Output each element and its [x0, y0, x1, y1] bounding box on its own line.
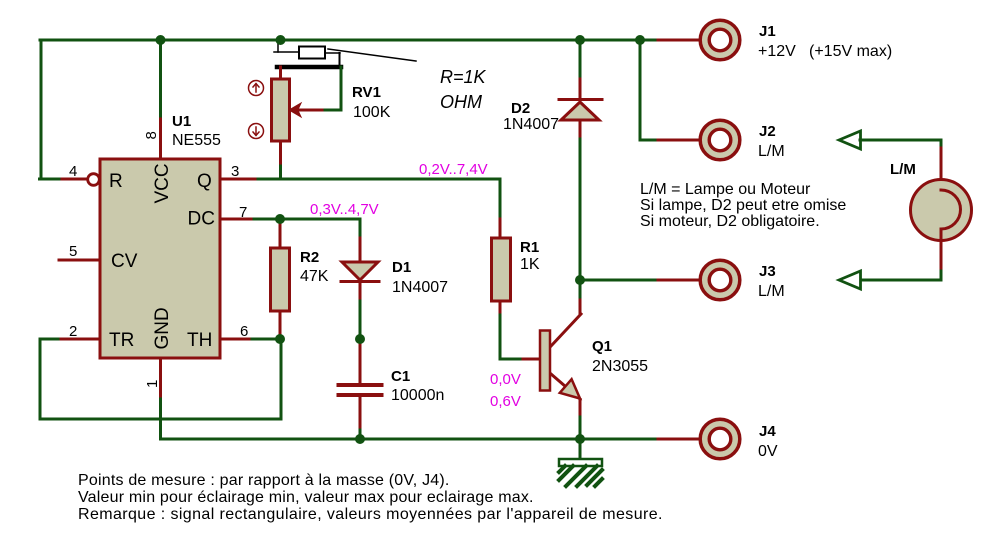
capacitor C1 stub bottom	[359, 397, 362, 430]
pin 4 stub	[62, 178, 88, 181]
wire lamp top	[860, 140, 941, 148]
svg-text:Q: Q	[197, 171, 212, 192]
diode D1 stub bottom	[359, 281, 362, 301]
junction node pin8/rail	[156, 35, 166, 45]
svg-text:R1: R1	[520, 239, 539, 256]
connector J1	[700, 20, 740, 60]
connector J3	[700, 260, 740, 300]
connector J2	[700, 120, 740, 160]
svg-text:OHM: OHM	[440, 92, 482, 112]
Q1 base stub	[523, 358, 540, 361]
lamp arrow bottom	[839, 271, 861, 289]
annotation pointer line	[328, 49, 416, 61]
potentiometer RV1 body	[272, 79, 290, 141]
svg-text:2: 2	[69, 323, 77, 340]
svg-text:R=1K: R=1K	[440, 67, 487, 87]
svg-text:R2: R2	[300, 249, 319, 266]
RV1 wiper arrowhead	[290, 104, 301, 117]
pin 1 stub	[159, 358, 162, 399]
ic U1 NE555 body	[100, 159, 220, 358]
svg-text:L/M: L/M	[890, 161, 916, 178]
RV1 down adjust circle	[249, 124, 264, 139]
resistor R2 stub bottom	[279, 311, 282, 339]
svg-text:1K: 1K	[520, 256, 540, 273]
resistor R1 body	[492, 238, 511, 301]
RV1 up adjust circle	[249, 81, 264, 96]
svg-text:Remarque : signal rectangulair: Remarque : signal rectangulaire, valeurs…	[78, 506, 663, 523]
wire J1 stub green	[640, 39, 658, 42]
svg-text:8: 8	[143, 131, 160, 139]
transistor Q1 emitter stub	[579, 400, 582, 417]
svg-text:C1: C1	[391, 368, 410, 385]
pin 6 stub	[220, 338, 252, 341]
svg-text:2N3055: 2N3055	[592, 358, 648, 375]
diode D2 cathode bar	[559, 98, 602, 101]
resistor R2 body	[271, 248, 290, 311]
wire reset pin4 horizontal	[40, 178, 63, 181]
lamp inner arc	[941, 190, 961, 229]
junction node emitter ground	[575, 434, 585, 444]
wire J4 stub	[658, 438, 700, 441]
resistor R1 stub top	[499, 219, 502, 239]
lamp L/M circle	[911, 180, 972, 241]
potentiometer RV1 black annotation tick	[277, 43, 279, 52]
diode D2 stub top	[579, 79, 582, 99]
svg-text:J2: J2	[759, 123, 776, 140]
svg-text:10000n: 10000n	[391, 387, 444, 404]
svg-text:0,0V: 0,0V	[490, 371, 521, 388]
svg-text:U1: U1	[172, 113, 191, 130]
potentiometer RV1 stub top	[279, 67, 282, 79]
wire D1 to node	[359, 301, 362, 339]
svg-text:6: 6	[240, 323, 248, 340]
wire ground symbol drop	[579, 439, 582, 459]
svg-text:J4: J4	[759, 423, 776, 440]
svg-text:TH: TH	[187, 330, 212, 351]
potentiometer RV1 stub bottom	[279, 141, 282, 166]
junction node C1 ground	[355, 434, 365, 444]
junction node J3	[575, 275, 585, 285]
wire pin2 green	[40, 338, 61, 341]
wire pin8 vertical green	[159, 40, 162, 119]
wire R1 to Q1 base	[500, 315, 523, 359]
svg-text:TR: TR	[109, 330, 134, 351]
svg-text:VCC: VCC	[152, 163, 173, 203]
svg-text:J1: J1	[759, 23, 776, 40]
svg-text:Points de mesure : par rapport: Points de mesure : par rapport à la mass…	[78, 472, 450, 489]
svg-text:100K: 100K	[353, 104, 391, 121]
pin 7 stub	[220, 218, 254, 221]
svg-text:L/M: L/M	[758, 283, 785, 300]
junction node D2/rail	[575, 35, 585, 45]
svg-text:0,6V: 0,6V	[490, 393, 521, 410]
transistor Q1 emitter diagonal	[551, 374, 580, 399]
junction node RV1/rail	[276, 35, 286, 45]
wire J3 node down	[579, 280, 582, 300]
capacitor C1 plates	[339, 383, 382, 387]
wire RV1 bottom to pin3 net	[279, 166, 282, 179]
svg-text:47K: 47K	[300, 268, 329, 285]
connector J4	[700, 419, 740, 459]
svg-text:1N4007: 1N4007	[392, 279, 448, 296]
diode D1 cathode bar	[341, 280, 379, 283]
wire RV1 wiper vertical	[340, 67, 343, 110]
lamp wire red top	[940, 148, 943, 190]
transistor Q1 base bar	[540, 331, 550, 391]
wire J3 horizontal	[580, 279, 658, 282]
svg-text:Si moteur, D2 obligatoire.: Si moteur, D2 obligatoire.	[640, 213, 820, 230]
capacitor C1 stub top	[359, 339, 362, 383]
svg-text:0,2V..7,4V: 0,2V..7,4V	[419, 161, 488, 178]
svg-text:5: 5	[69, 243, 77, 260]
svg-text:NE555: NE555	[172, 132, 221, 149]
wire J2 stub red	[658, 139, 700, 142]
wire pin7 to D1	[254, 219, 360, 238]
annotation resistor box	[299, 47, 325, 59]
diode D1 triangle	[342, 262, 378, 280]
wire C1 to ground rail	[359, 430, 362, 439]
wire pin3 to R1	[258, 179, 500, 219]
junction node pin6	[275, 334, 285, 344]
wire D2 to J3 node	[579, 139, 582, 280]
pin 2 stub	[61, 338, 100, 341]
junction node pin7	[275, 214, 285, 224]
wire lamp bottom	[860, 271, 941, 280]
annotation vertical jog	[339, 53, 341, 66]
svg-text:CV: CV	[111, 251, 138, 272]
wire J2 branch	[640, 40, 658, 140]
annotation line right	[325, 52, 340, 54]
svg-text:+12V: +12V	[758, 43, 796, 60]
svg-text:R: R	[109, 171, 123, 192]
svg-text:L/M = Lampe ou Moteur: L/M = Lampe ou Moteur	[640, 181, 811, 198]
svg-text:DC: DC	[188, 209, 215, 230]
wire ground rail	[161, 438, 659, 441]
pin 5 stub	[59, 259, 100, 262]
wire TR loop	[40, 339, 281, 419]
wire left vertical VCC to reset	[40, 40, 43, 179]
svg-text:4: 4	[69, 163, 77, 180]
svg-text:RV1: RV1	[352, 84, 381, 101]
wire RV1 wiper horizontal green	[322, 109, 341, 112]
svg-text:D1: D1	[392, 259, 411, 276]
diode D1 stub top	[359, 238, 362, 262]
wire pin1 to ground rail	[159, 399, 162, 439]
svg-text:Q1: Q1	[592, 338, 612, 355]
svg-text:D2: D2	[511, 100, 530, 117]
pin 8 stub	[159, 119, 162, 159]
junction node J2 branch	[635, 35, 645, 45]
lamp arrow top	[839, 131, 861, 149]
resistor R2 stub top	[279, 219, 282, 249]
pin 3 stub	[220, 178, 258, 181]
svg-text:J3: J3	[759, 263, 776, 280]
resistor R1 stub bottom	[499, 301, 502, 315]
ground symbol	[559, 459, 602, 486]
svg-text:L/M: L/M	[758, 143, 785, 160]
svg-text:(+15V max): (+15V max)	[809, 43, 892, 60]
svg-text:7: 7	[239, 204, 247, 221]
wire emitter to ground rail	[579, 417, 582, 439]
RV1 wiper red wire	[295, 109, 322, 112]
svg-text:3: 3	[231, 163, 239, 180]
svg-text:Si lampe, D2 peut etre omise: Si lampe, D2 peut etre omise	[640, 197, 846, 214]
wire pin6 to node	[252, 338, 281, 341]
svg-text:Valeur min pour éclairage min,: Valeur min pour éclairage min, valeur ma…	[78, 489, 534, 506]
pin 4 inversion bubble	[88, 174, 100, 186]
svg-text:1N4007: 1N4007	[503, 116, 559, 133]
annotation thick black bar	[277, 65, 341, 70]
diode D2 triangle	[561, 102, 599, 120]
junction node D1/C1	[355, 334, 365, 344]
wire top power rail	[40, 39, 640, 42]
wire J3 stub red	[658, 279, 700, 282]
svg-text:0,3V..4,7V: 0,3V..4,7V	[310, 201, 379, 218]
transistor Q1 collector diagonal	[551, 314, 581, 346]
annotation line left	[274, 51, 299, 53]
svg-text:1: 1	[144, 380, 161, 388]
transistor Q1 emitter arrowhead	[560, 379, 580, 398]
diode D2 stub bottom	[579, 120, 582, 139]
wire J1 stub red	[658, 39, 700, 42]
svg-text:0V: 0V	[758, 443, 778, 460]
lamp wire red bottom	[940, 229, 943, 271]
diode D2 wire top	[579, 40, 582, 79]
svg-text:GND: GND	[152, 307, 173, 349]
transistor Q1 collector stub	[579, 300, 582, 313]
